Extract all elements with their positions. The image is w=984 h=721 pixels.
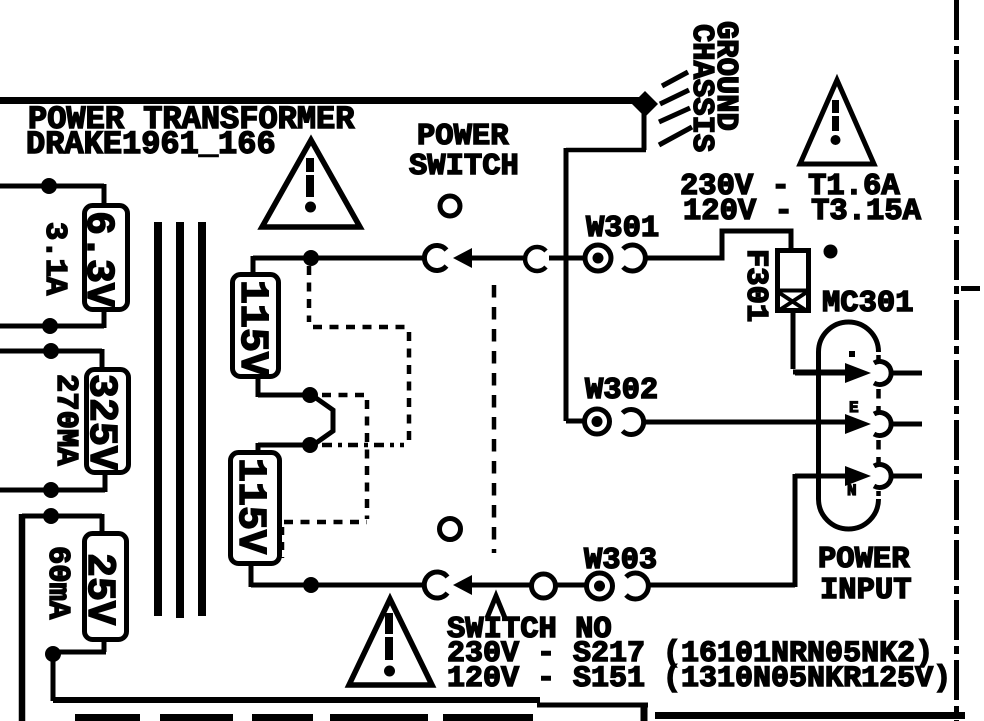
svg-text:6.3V: 6.3V xyxy=(75,211,120,307)
svg-text:3.1A: 3.1A xyxy=(37,222,71,296)
svg-text:115V: 115V xyxy=(227,458,272,554)
svg-text:POWER: POWER xyxy=(818,543,910,577)
svg-text:115V: 115V xyxy=(229,280,274,376)
svg-text:25V: 25V xyxy=(76,553,121,625)
svg-text:F301: F301 xyxy=(738,249,772,322)
svg-text:SWITCH: SWITCH xyxy=(409,150,519,184)
svg-text:60mA: 60mA xyxy=(40,546,74,620)
svg-text:W303: W303 xyxy=(584,544,657,578)
svg-text:E: E xyxy=(849,399,859,417)
svg-text:CHASSIS: CHASSIS xyxy=(684,24,718,152)
svg-text:270MA: 270MA xyxy=(48,374,82,466)
svg-text:325V: 325V xyxy=(78,374,123,470)
svg-text:W301: W301 xyxy=(586,212,659,246)
svg-text:W302: W302 xyxy=(585,374,658,408)
svg-text:120V - T3.15A: 120V - T3.15A xyxy=(683,195,922,229)
svg-text:POWER: POWER xyxy=(417,120,509,154)
svg-text:MC301: MC301 xyxy=(822,287,914,321)
svg-text:120V - S151 (1310N05NKR125V): 120V - S151 (1310N05NKR125V) xyxy=(447,662,951,696)
svg-text:DRAKE1961_166: DRAKE1961_166 xyxy=(26,126,276,163)
svg-text:INPUT: INPUT xyxy=(820,574,912,608)
svg-text:N: N xyxy=(847,482,857,500)
